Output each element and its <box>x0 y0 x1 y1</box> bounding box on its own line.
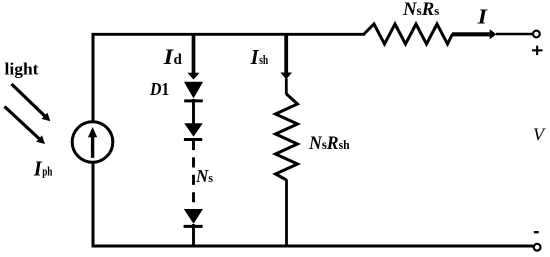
label Id <box>163 44 183 69</box>
label plus <box>532 46 542 56</box>
current arrow Ish <box>280 34 292 79</box>
resistor NsRsh <box>276 94 298 180</box>
svg-text:light: light <box>5 59 39 78</box>
wire to positive terminal <box>496 33 533 35</box>
wire bottom horizontal <box>92 245 533 248</box>
label Ish <box>250 45 269 69</box>
diode D1 first <box>184 82 203 124</box>
light ray arrow 2 <box>5 107 46 145</box>
dashed wire Ns <box>192 157 195 202</box>
current arrow I <box>452 29 496 39</box>
wire shunt lower <box>285 180 288 247</box>
current source arrow <box>88 127 97 158</box>
svg-text:ph: ph <box>42 164 52 178</box>
wire shunt upper <box>285 79 288 95</box>
svg-text:I: I <box>250 45 260 69</box>
svg-text:D1: D1 <box>149 79 169 99</box>
wire top horizontal <box>93 33 365 36</box>
svg-text:I: I <box>33 156 43 180</box>
svg-text:NsRs: NsRs <box>402 0 439 20</box>
label Iph <box>33 156 53 180</box>
terminal negative <box>534 244 541 251</box>
current arrow Id <box>187 34 199 80</box>
svg-text:d: d <box>174 52 183 68</box>
resistor NsRs <box>364 24 453 44</box>
wire diode branch bottom <box>192 224 195 246</box>
label minus <box>534 231 539 233</box>
light ray arrow 1 <box>12 84 51 121</box>
current source Iph circle <box>72 122 113 163</box>
diode second <box>184 123 203 150</box>
diode third <box>184 209 203 226</box>
terminal positive <box>533 31 540 38</box>
svg-text:I: I <box>477 5 488 29</box>
svg-text:sh: sh <box>259 53 268 67</box>
wire left vertical lower <box>92 162 95 248</box>
wire left vertical upper <box>92 33 95 123</box>
